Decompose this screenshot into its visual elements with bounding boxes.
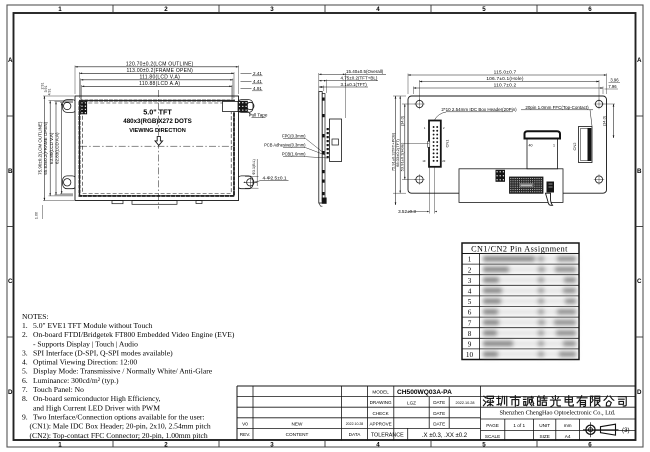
svg-text:Touch Panel: No: Touch Panel: No — [33, 385, 84, 394]
svg-text:SIZE: SIZE — [539, 434, 549, 439]
svg-text:2*10 2.54mm IDC Box Header(20P: 2*10 2.54mm IDC Box Header(20Pin) — [441, 107, 517, 112]
svg-text:7.96: 7.96 — [608, 84, 617, 89]
svg-text:NOTES:: NOTES: — [22, 312, 49, 321]
svg-text:111.80(LCD V.A): 111.80(LCD V.A) — [139, 75, 180, 81]
svg-text:65.63±0.2(FRAME OPEN): 65.63±0.2(FRAME OPEN) — [43, 121, 48, 174]
svg-text:D: D — [8, 389, 13, 396]
svg-text:CN1: CN1 — [444, 139, 449, 148]
svg-text:3: 3 — [468, 277, 472, 285]
svg-text:C: C — [637, 278, 642, 285]
svg-text:20: 20 — [442, 159, 445, 163]
svg-text:UNIT: UNIT — [539, 423, 550, 428]
svg-text:113.00±0.2(FRAME OPEN): 113.00±0.2(FRAME OPEN) — [126, 68, 193, 74]
svg-text:DATE: DATE — [433, 411, 445, 416]
svg-text:8.: 8. — [22, 394, 28, 403]
svg-text:6.: 6. — [22, 376, 28, 385]
svg-text:2.: 2. — [22, 330, 28, 339]
svg-text:DATA: DATA — [349, 432, 362, 437]
svg-text:4: 4 — [468, 288, 472, 296]
svg-text:3: 3 — [270, 441, 274, 448]
svg-text:10: 10 — [466, 351, 474, 359]
svg-text:Pull Tape: Pull Tape — [249, 113, 268, 118]
svg-text:PCB(1.6mm): PCB(1.6mm) — [282, 152, 306, 157]
svg-text:and High Current LED Driver wi: and High Current LED Driver with PWM — [33, 403, 160, 412]
svg-text:FPC(0.3mm): FPC(0.3mm) — [282, 134, 306, 139]
svg-text:2022.10.28: 2022.10.28 — [455, 401, 474, 405]
svg-text:CONTENT: CONTENT — [286, 432, 309, 437]
svg-text:4.75±0.2(TFT+BL): 4.75±0.2(TFT+BL) — [341, 76, 378, 81]
svg-text:CH500WQ03A-PA: CH500WQ03A-PA — [397, 389, 452, 396]
svg-text:4.: 4. — [22, 358, 28, 367]
svg-text:C: C — [8, 278, 13, 285]
svg-text:8: 8 — [468, 330, 472, 338]
svg-text:15.40±0.5(Overall): 15.40±0.5(Overall) — [346, 69, 384, 74]
svg-text:NEW: NEW — [292, 421, 304, 426]
svg-text:3.96: 3.96 — [610, 77, 619, 82]
svg-text:CN2: CN2 — [572, 142, 577, 151]
svg-text:A4: A4 — [565, 434, 571, 439]
svg-text:2: 2 — [468, 266, 472, 274]
svg-text:3.1±0.1(TFT): 3.1±0.1(TFT) — [341, 82, 368, 87]
svg-text:(34.0): (34.0) — [603, 115, 607, 126]
svg-text:120.70±0.2(LCM OUTLINE): 120.70±0.2(LCM OUTLINE) — [126, 62, 194, 68]
svg-text:7.: 7. — [22, 385, 28, 394]
svg-text:62.83(LCD A.A): 62.83(LCD A.A) — [55, 132, 60, 164]
svg-text:Display Mode: Transmissive / N: Display Mode: Transmissive / Normally Wh… — [33, 367, 213, 376]
svg-text:DATE: DATE — [433, 400, 445, 405]
svg-text:A: A — [8, 57, 13, 64]
svg-text:(3): (3) — [622, 427, 630, 434]
svg-text:DRAWING: DRAWING — [370, 400, 392, 405]
svg-text:Two Interface/Connection optio: Two Interface/Connection options availab… — [33, 412, 205, 421]
svg-text:4: 4 — [376, 6, 380, 13]
svg-text:5: 5 — [482, 6, 486, 13]
svg-text:4.41: 4.41 — [253, 79, 262, 84]
svg-text:D: D — [637, 389, 642, 396]
svg-text:VIEWING DIRECTION: VIEWING DIRECTION — [129, 128, 186, 134]
svg-text:(CN2): Top-contact FFC Connect: (CN2): Top-contact FFC Connector; 20-pin… — [30, 431, 208, 440]
svg-text:B: B — [8, 168, 13, 175]
svg-text:4: 4 — [376, 441, 380, 448]
svg-text:53.91±0.2(Hole): 53.91±0.2(Hole) — [400, 142, 405, 171]
svg-text:APPROVE: APPROVE — [369, 421, 391, 426]
svg-text:106.7±0.1(Hole): 106.7±0.1(Hole) — [486, 76, 524, 82]
svg-text:480x3(RGB)X272 DOTS: 480x3(RGB)X272 DOTS — [123, 118, 191, 125]
svg-text:SCALE: SCALE — [485, 434, 500, 439]
svg-text:20pin 1.0mm FFC(Top-Contact): 20pin 1.0mm FFC(Top-Contact) — [525, 105, 589, 110]
svg-text:63.80(LCD V.A): 63.80(LCD V.A) — [49, 132, 54, 164]
svg-text:On-board FTDI/Bridgetek FT800: On-board FTDI/Bridgetek FT800 Embedded V… — [33, 330, 235, 339]
svg-text:B: B — [637, 168, 642, 175]
svg-text:REV.: REV. — [240, 432, 251, 437]
svg-text:6: 6 — [588, 6, 592, 13]
svg-text:DATE: DATE — [433, 421, 445, 426]
svg-text:V0: V0 — [242, 421, 248, 426]
svg-text:3: 3 — [270, 6, 274, 13]
svg-text:CN1/CN2 Pin Assignment: CN1/CN2 Pin Assignment — [471, 244, 568, 253]
svg-text:40: 40 — [529, 144, 533, 148]
svg-text:9.: 9. — [22, 412, 28, 421]
svg-text:19: 19 — [422, 159, 425, 163]
svg-text:TOLERANCE: TOLERANCE — [371, 433, 404, 439]
svg-text:6: 6 — [588, 441, 592, 448]
svg-text:1: 1 — [58, 6, 62, 13]
svg-text:PAGE: PAGE — [486, 423, 499, 428]
svg-text:5.0" EVE1 TFT Module without T: 5.0" EVE1 TFT Module without Touch — [33, 321, 153, 330]
svg-text:115.0±0.7: 115.0±0.7 — [494, 70, 517, 76]
svg-text:1.: 1. — [22, 321, 28, 330]
svg-text:2.41: 2.41 — [253, 71, 262, 76]
svg-text:2: 2 — [164, 6, 168, 13]
svg-text:110.7±0.2: 110.7±0.2 — [494, 83, 517, 89]
svg-text:5.: 5. — [22, 367, 28, 376]
svg-text:6: 6 — [468, 309, 472, 317]
svg-text:1: 1 — [58, 441, 62, 448]
svg-text:2: 2 — [164, 441, 168, 448]
svg-text:4.91: 4.91 — [253, 86, 262, 91]
svg-text:1 of 1: 1 of 1 — [513, 423, 525, 428]
svg-text:110.88(LCD A.A): 110.88(LCD A.A) — [139, 81, 180, 87]
svg-text:1: 1 — [468, 256, 472, 264]
svg-text:PCB Adhesive(0.3mm): PCB Adhesive(0.3mm) — [264, 143, 306, 148]
svg-text:MODEL: MODEL — [372, 390, 389, 395]
svg-text:A: A — [637, 57, 642, 64]
svg-text:5.0" TFT: 5.0" TFT — [143, 107, 172, 116]
svg-text:.X ±0.3, .XX ±0.2: .X ±0.3, .XX ±0.2 — [422, 433, 468, 439]
svg-text:SPI Interface (D-SPI, Q-SPI mo: SPI Interface (D-SPI, Q-SPI modes availa… — [33, 348, 173, 357]
svg-text:1: 1 — [553, 144, 555, 148]
svg-text:4.91: 4.91 — [48, 89, 52, 96]
svg-text:5: 5 — [482, 441, 486, 448]
svg-text:(CN1): Male IDC Box Header; 20: (CN1): Male IDC Box Header; 20-pin, 2x10… — [30, 422, 211, 431]
svg-text:1.00: 1.00 — [35, 212, 39, 219]
svg-text:Luminance: 300cd/m² (typ.): Luminance: 300cd/m² (typ.) — [33, 376, 119, 385]
svg-text:7: 7 — [468, 319, 472, 327]
svg-text:(34.0): (34.0) — [401, 115, 405, 126]
svg-text:5: 5 — [468, 298, 472, 306]
svg-text:Φ3.1(B.L): Φ3.1(B.L) — [252, 159, 256, 175]
svg-text:LGZ: LGZ — [407, 400, 416, 405]
svg-text:On-board semiconductor High Ef: On-board semiconductor High Efficiency, — [33, 394, 161, 403]
svg-text:2022.10.28: 2022.10.28 — [346, 422, 364, 426]
svg-text:3.: 3. — [22, 348, 28, 357]
svg-text:Optimal Viewing Direction: 12:: Optimal Viewing Direction: 12:00 — [33, 358, 137, 367]
svg-text:Shenzhen ChengHao Optoelectron: Shenzhen ChengHao Optoelectronic Co., Lt… — [500, 409, 616, 416]
svg-text:- Supports Display | Touch | A: - Supports Display | Touch | Audio — [33, 339, 138, 348]
svg-text:75.90±0.2(LCM OUTLINE): 75.90±0.2(LCM OUTLINE) — [37, 121, 42, 175]
svg-text:CHECK: CHECK — [373, 411, 390, 416]
svg-text:mm: mm — [564, 423, 572, 428]
svg-text:9: 9 — [468, 341, 472, 349]
